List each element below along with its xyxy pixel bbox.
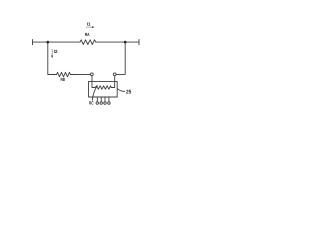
node dot left (47, 41, 50, 44)
node dot right (124, 41, 127, 44)
wiper leader RC (92, 86, 97, 101)
resistor RC zigzag (95, 86, 111, 89)
leader to label 25 (117, 88, 125, 91)
resistor RB (57, 72, 71, 77)
inner wire left (92, 81, 95, 87)
resistor RA (80, 40, 96, 45)
tap stub 1 (96, 97, 98, 102)
wire top rail left (33, 41, 81, 43)
current arrow I2 (51, 49, 53, 58)
terminal circle left (90, 73, 93, 76)
terminal tick right (138, 40, 140, 45)
wire RB to left terminal circle (70, 73, 90, 75)
stub left circle to box (91, 76, 93, 82)
svg-text:25: 25 (126, 90, 131, 96)
tap stub 2 (100, 97, 102, 102)
wire top rail right (96, 41, 139, 43)
wire left branch vertical (48, 42, 57, 74)
current arrow I1 (86, 26, 95, 28)
tap stub 3 (104, 97, 106, 102)
terminal tick left (32, 40, 34, 45)
terminal circle right (113, 73, 116, 76)
stub right circle to box (114, 76, 116, 82)
box resistor unit 25 (89, 81, 118, 97)
tap circle 2 (100, 102, 103, 105)
svg-text:RB: RB (61, 77, 66, 82)
svg-text:I2: I2 (54, 49, 58, 54)
tap stub 4 (108, 97, 110, 102)
svg-text:RA: RA (85, 32, 90, 37)
tap circle 1 (96, 102, 99, 105)
tap circle 3 (104, 102, 107, 105)
svg-text:RC: RC (89, 101, 94, 106)
svg-text:I1: I1 (87, 22, 91, 27)
wire right branch vertical (116, 42, 125, 74)
inner wire right (111, 81, 114, 87)
tap circle 4 (108, 102, 111, 105)
